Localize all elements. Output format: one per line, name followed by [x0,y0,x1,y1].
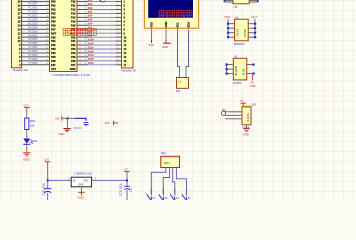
svg-text:7: 7 [79,28,80,30]
svg-text:36: 36 [46,59,48,61]
svg-text:P23: P23 [71,47,76,51]
svg-text:3: 3 [79,8,80,10]
svg-text:6: 6 [117,20,118,22]
svg-text:EC10 470u: EC10 470u [43,182,46,195]
svg-text:31: 31 [46,43,48,45]
svg-text:P35: P35 [51,55,56,59]
svg-text:B11#: B11# [88,46,94,49]
svg-text:1 2 3 4: 1 2 3 4 [237,29,240,37]
svg-text:P2.2DB2: P2.2DB2 [28,7,38,10]
svg-text:B3#: B3# [88,15,93,18]
svg-text:IN5V: IN5V [224,15,230,19]
svg-text:21: 21 [46,4,48,6]
svg-text:11: 11 [117,43,119,45]
XS1 left pins [225,112,242,119]
svg-text:XS1: XS1 [252,103,257,107]
wire VCC to R19 [26,110,28,118]
svg-text:P5.5DB5: P5.5DB5 [28,22,38,25]
svg-text:P5.5DB5: P5.5DB5 [28,18,38,21]
svg-text:6: 6 [79,20,80,22]
ground under D4 [23,153,31,162]
red watermark text on LCD [159,11,192,18]
junction at regulator input [47,179,49,181]
svg-text:P7.5DB5: P7.5DB5 [28,62,38,65]
svg-text:9: 9 [117,36,118,38]
svg-text:4: 4 [22,8,23,10]
svg-text:GND: GND [23,157,31,161]
svg-text:D4: D4 [34,139,38,143]
svg-text:1 2 3 4: 1 2 3 4 [247,113,250,121]
power label +5V (cap cluster) [55,116,62,121]
svg-text:U3: U3 [234,55,238,59]
svg-text:4: 4 [22,12,23,14]
wire D4 to GND [26,144,28,153]
red watermark text on U1 [63,28,96,35]
svg-text:Header 20: Header 20 [13,68,28,72]
svg-text:10k: 10k [30,124,35,128]
svg-text:P31: P31 [51,39,56,43]
svg-text:8 7 6 5: 8 7 6 5 [244,29,247,37]
wire 12V rail down [47,165,49,201]
svg-text:MK: MK [222,108,226,112]
svg-text:P7.5DB5: P7.5DB5 [28,58,38,61]
svg-text:P02: P02 [51,8,56,12]
microphone symbol at XS1 left [221,108,226,116]
svg-text:29: 29 [46,36,48,38]
svg-text:Header 20: Header 20 [121,68,136,72]
svg-text:3: 3 [79,12,80,14]
svg-text:P37: P37 [51,63,56,67]
svg-text:12: 12 [79,47,81,49]
svg-text:P00: P00 [51,0,56,4]
svg-text:P30: P30 [51,35,56,39]
svg-text:24: 24 [46,16,48,18]
switch K2 [159,194,168,200]
svg-text:B10#: B10# [88,42,95,45]
connector JK1 (key block) [161,156,180,167]
svg-text:P07: P07 [51,27,56,31]
svg-text:B10#: B10# [88,38,95,41]
svg-text:P13: P13 [71,12,76,16]
svg-text:P0.8DB8: P0.8DB8 [28,34,38,37]
capacitor EC10 on 12V rail [43,182,52,195]
svg-text:16: 16 [117,63,119,65]
svg-text:B2#: B2# [88,11,93,14]
connector P2 (Header 20, right) [122,0,134,68]
svg-text:7: 7 [22,20,23,22]
wire JK1 pin3 to K3 [173,168,175,196]
MCU U1 STC89C52 [50,0,78,72]
svg-text:P0.8DB8: P0.8DB8 [28,30,38,33]
wire junction down to ground [67,118,69,128]
wire junction to U4 IN [48,177,71,180]
svg-text:SCL: SCL [176,22,180,28]
svg-text:2: 2 [22,0,23,2]
svg-text:1: 1 [79,4,80,6]
wire JK1 pin2 to K2 [163,168,169,196]
LCD pin 3 wire down to P4 [178,29,181,78]
svg-text:4: 4 [117,16,118,18]
svg-text:P12: P12 [71,8,76,12]
U3 left pins [226,63,234,74]
svg-text:12: 12 [22,43,24,45]
svg-text:12V: 12V [105,121,110,125]
svg-text:14: 14 [79,55,81,57]
svg-text:U5: U5 [234,5,238,9]
svg-text:U7632: U7632 [233,81,242,85]
svg-text:GND: GND [243,132,249,136]
IC U3 [233,58,247,80]
power port 12V (horizontal, mid) [105,121,118,125]
power port VCC [23,103,29,110]
svg-text:P33: P33 [51,47,56,51]
svg-text:L78M05CV-DG: L78M05CV-DG [74,171,92,175]
capacitor C9 [74,123,89,131]
svg-text:P03: P03 [51,12,56,16]
svg-text:IN: IN [73,179,76,182]
svg-text:6: 6 [79,24,80,26]
svg-text:GND: GND [70,67,76,71]
svg-text:7: 7 [117,28,118,30]
svg-text:P32: P32 [51,43,56,47]
svg-text:15: 15 [22,51,24,53]
svg-text:P20: P20 [71,35,76,39]
svg-text:RST: RST [51,31,57,35]
svg-text:C9 0.1: C9 0.1 [74,126,83,130]
svg-text:P25: P25 [71,55,76,59]
svg-text:16: 16 [79,59,81,61]
svg-text:P2.0DB0: P2.0DB0 [28,38,38,41]
connector P1 (Header 20, left) [12,0,22,68]
LCD pin 1 stub [152,29,155,42]
svg-text:P26: P26 [71,59,76,63]
wire JK1 pin1 to K1 [151,168,166,196]
svg-text:P04: P04 [51,16,56,20]
svg-text:Y1 Y2: Y1 Y2 [243,68,246,75]
wire U4 OUT to 5V rail [92,177,127,180]
svg-text:P11: P11 [71,4,76,8]
svg-text:jp6: jp6 [101,0,106,4]
power port 12V (regulator input) [44,158,50,165]
net label and power mark at top of right bus [100,0,106,4]
svg-text:14: 14 [117,55,119,57]
svg-text:9: 9 [79,36,80,38]
svg-text:1: 1 [117,0,118,2]
wire JK1 pin4 to K4 [176,168,186,196]
switch K3 [170,194,179,200]
svg-text:13: 13 [22,47,24,49]
switch K4 [182,194,191,200]
LCD screen area [148,0,193,18]
svg-text:B8#: B8# [88,31,93,34]
svg-text:- 8041 -: - 8041 - [163,163,171,165]
power port 5V above XS1 [241,99,246,106]
svg-text:P06: P06 [51,23,56,27]
svg-text:B0#: B0# [88,0,93,2]
svg-text:11: 11 [79,40,81,42]
svg-text:14: 14 [79,51,81,53]
svg-text:S04: S04 [161,151,166,155]
svg-text:B0#: B0# [88,3,93,6]
svg-text:11: 11 [79,43,81,45]
svg-text:P21: P21 [71,39,76,43]
svg-text:OUT: OUT [251,15,257,19]
svg-text:17: 17 [22,63,24,65]
svg-text:GND: GND [78,185,83,187]
svg-text:B2#: B2# [88,7,93,10]
svg-text:P0.0DB0: P0.0DB0 [28,0,38,2]
svg-text:36: 36 [46,63,48,65]
svg-text:R19: R19 [30,119,36,123]
svg-text:P14: P14 [71,16,76,20]
svg-text:6: 6 [117,24,118,26]
svg-text:B15#: B15# [88,62,95,65]
resistor R19 [25,118,36,130]
LCD pin 2 stub [166,29,169,43]
svg-text:17: 17 [22,59,24,61]
svg-text:P16: P16 [71,23,76,27]
svg-text:9: 9 [117,32,118,34]
svg-text:3: 3 [117,12,118,14]
svg-text:XS1/4: XS1/4 [242,126,250,130]
svg-text:XT2: XT2 [51,67,56,71]
svg-text:P6.6DB6: P6.6DB6 [28,26,38,29]
svg-text:12: 12 [117,47,119,49]
voltage regulator U4 L78M05 [71,177,91,187]
svg-text:GND: GND [164,21,168,27]
IC U5 (cut at top) [224,0,259,4]
svg-text:10: 10 [22,36,24,38]
svg-text:16: 16 [117,59,119,61]
svg-text:P36: P36 [51,59,56,63]
svg-text:15: 15 [22,55,24,57]
svg-text:P5.3DB3: P5.3DB3 [28,54,38,57]
LED D4 [23,139,38,145]
svg-text:8: 8 [22,28,23,30]
svg-text:SDA: SDA [187,22,191,28]
svg-text:STC89C52RC/RD+ 5-4.6K: STC89C52RC/RD+ 5-4.6K [53,73,91,77]
svg-text:P34: P34 [51,51,56,55]
svg-text:P05: P05 [51,19,56,23]
svg-text:P5.3DB3: P5.3DB3 [28,50,38,53]
svg-text:9: 9 [79,32,80,34]
U3 right pins [247,64,255,75]
svg-text:P4: P4 [176,90,180,94]
svg-text:29: 29 [46,32,48,34]
svg-text:P3.1DB1: P3.1DB1 [28,46,38,49]
ground symbol under LCD pin2 [162,41,171,50]
power label at U3 lower right [250,75,256,88]
svg-text:5V: 5V [124,167,128,171]
svg-text:VSS: VSS [150,22,154,28]
svg-text:B8#: B8# [88,34,93,37]
svg-text:16: 16 [79,63,81,65]
LCD pin name labels (rotated) [150,21,191,27]
wire to capacitor C9 [75,118,86,121]
svg-text:GND: GND [162,45,168,49]
svg-text:23: 23 [46,8,48,10]
svg-text:P2.2DB2: P2.2DB2 [28,11,38,14]
ground under XS1 [243,125,250,137]
svg-text:+5V: +5V [55,116,60,120]
svg-text:U2: U2 [235,15,239,19]
capacitor EC11 on 5V rail [124,186,129,189]
svg-text:34: 34 [46,55,48,57]
switch K1 [147,194,156,200]
svg-text:10: 10 [22,32,24,34]
svg-text:A1 A2 B: A1 A2 B [235,66,238,75]
svg-text:26: 26 [46,20,48,22]
svg-text:P27: P27 [71,63,76,67]
svg-text:P0.0DB0: P0.0DB0 [28,3,38,6]
svg-text:VCC: VCC [23,103,29,107]
svg-text:B6#: B6# [88,27,93,30]
svg-text:P2.0DB0: P2.0DB0 [28,42,38,45]
U2 right pins with junctions [248,19,256,39]
svg-text:31: 31 [46,40,48,42]
svg-text:B13#: B13# [88,54,95,57]
svg-text:P22: P22 [71,43,76,47]
svg-text:P01: P01 [51,4,56,8]
IC U2 optocoupler block [235,19,249,41]
svg-text:32: 32 [46,47,48,49]
U4 ground pin and ground symbol [77,187,84,200]
svg-text:1: 1 [117,4,118,6]
svg-text:P15: P15 [71,19,76,23]
wire 5V rail vertical [126,172,128,200]
svg-text:23: 23 [46,12,48,14]
svg-text:GND: GND [77,196,83,200]
U2 left pins with junctions [227,19,235,39]
junction node [67,117,69,119]
power port VSS under LCD pin1 [148,40,154,48]
svg-text:14: 14 [117,51,119,53]
connector XS1 [242,106,251,125]
svg-text:P10: P10 [71,0,76,4]
svg-text:7: 7 [22,24,23,26]
wire +5V to junction [62,117,75,119]
svg-text:4: 4 [79,16,80,18]
svg-text:5: 5 [22,16,23,18]
LCD module LCD1 frame [144,0,198,28]
svg-text:B5#: B5# [88,23,93,26]
connector P4 (2-pin) [177,78,189,89]
svg-text:VSS: VSS [148,43,154,47]
power port 5V (regulator output) [124,167,129,171]
svg-text:2: 2 [22,4,23,6]
junction at 5V rail [126,179,128,181]
svg-text:1: 1 [79,0,80,2]
svg-text:GND: GND [58,132,64,136]
svg-text:B13#: B13# [88,50,95,53]
svg-text:P3.3DB3: P3.3DB3 [28,15,38,18]
svg-text:12: 12 [22,40,24,42]
svg-text:OUT: OUT [83,179,89,182]
svg-text:11: 11 [117,40,119,42]
svg-text:GND: GND [250,84,256,88]
svg-text:P24: P24 [71,51,76,55]
wire bus U1 to P2 with red net labels [77,0,122,65]
svg-text:C12: C12 [130,187,133,192]
svg-text:B15#: B15# [88,58,95,61]
svg-text:34: 34 [46,51,48,53]
svg-text:3: 3 [117,8,118,10]
svg-text:21: 21 [46,0,48,2]
svg-text:B0505S: B0505S [234,42,245,46]
svg-text:27: 27 [46,28,48,30]
LCD pin 4 wire down to P4 [186,29,192,78]
svg-text:B5#: B5# [88,19,93,22]
svg-text:26: 26 [46,24,48,26]
wire bus P1 to U1 with net labels [22,0,50,65]
ground (cap cluster) [58,129,70,136]
svg-text:12V: 12V [44,158,49,162]
svg-text:EC11 100u: EC11 100u [120,183,123,196]
wire R19 to D4 [26,130,28,139]
svg-text:5V: 5V [241,99,245,103]
